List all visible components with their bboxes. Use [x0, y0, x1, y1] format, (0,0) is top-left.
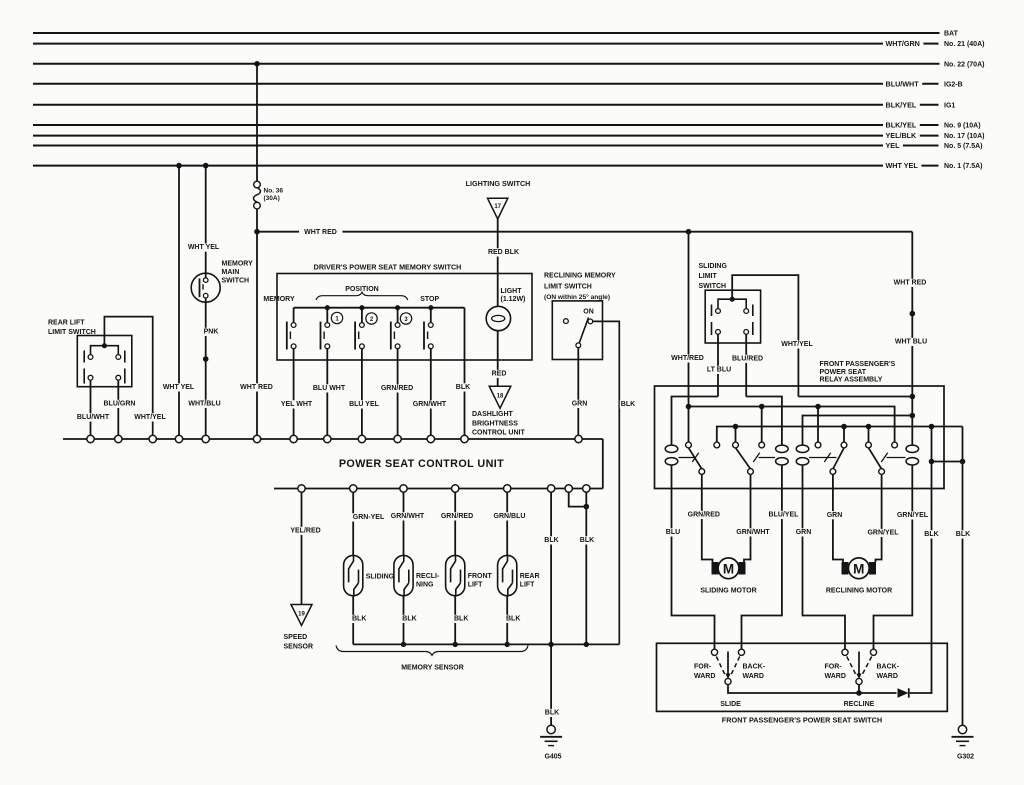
svg-text:BLK/YEL: BLK/YEL — [886, 100, 917, 109]
svg-text:WARD: WARD — [877, 673, 898, 680]
svg-text:FOR-: FOR- — [694, 664, 712, 671]
wire BLK from memory switch bus — [455, 308, 471, 436]
wire BLK from reclining memory limit switch — [593, 321, 637, 644]
svg-text:POWER SEAT CONTROL UNIT: POWER SEAT CONTROL UNIT — [339, 458, 504, 470]
svg-text:BLK: BLK — [621, 401, 635, 408]
wire WHT YEL to control unit — [162, 166, 196, 436]
svg-text:LT BLU: LT BLU — [707, 367, 731, 374]
svg-text:REAR LIFT: REAR LIFT — [48, 320, 85, 327]
svg-text:WHT RED: WHT RED — [894, 280, 927, 287]
svg-text:LIGHTING SWITCH: LIGHTING SWITCH — [466, 179, 531, 188]
svg-text:DRIVER'S POWER SEAT MEMORY SWI: DRIVER'S POWER SEAT MEMORY SWITCH — [314, 263, 462, 272]
svg-text:RED: RED — [492, 371, 507, 378]
svg-text:BRIGHTNESS: BRIGHTNESS — [472, 420, 518, 427]
wire WHT RED horizontal feed — [257, 229, 912, 236]
power rail No. 5 (7.5A) YEL — [33, 141, 983, 150]
wire GRN from relay switch C — [826, 489, 844, 563]
svg-text:BLK: BLK — [580, 537, 594, 544]
svg-text:GRN/WHT: GRN/WHT — [391, 513, 425, 520]
svg-text:BLK: BLK — [506, 616, 520, 623]
ground G302 — [952, 725, 975, 760]
position 3 pushbutton — [391, 308, 400, 360]
memory sensor common BLK bus — [353, 642, 619, 647]
memory switch internal bus — [294, 305, 465, 310]
position 2 pushbutton — [355, 308, 364, 360]
lighting switch connector 17 — [466, 179, 531, 219]
svg-text:RECLINING MOTOR: RECLINING MOTOR — [826, 588, 892, 595]
svg-text:PNK: PNK — [204, 329, 219, 336]
svg-text:WHT YEL: WHT YEL — [163, 384, 195, 391]
svg-text:WHT/YEL: WHT/YEL — [781, 341, 813, 348]
wire GRN-YEL to sliding sensor — [352, 492, 386, 555]
relay switch A (sliding) — [679, 442, 720, 488]
power rail No. 21 (40A) WHT/GRN — [33, 39, 984, 48]
svg-text:SENSOR: SENSOR — [284, 643, 314, 650]
svg-text:BLU/WHT: BLU/WHT — [886, 79, 920, 88]
diode — [898, 688, 909, 698]
svg-text:DASHLIGHT: DASHLIGHT — [472, 411, 514, 418]
svg-text:POWER SEAT: POWER SEAT — [820, 369, 867, 376]
svg-text:RELAY ASSEMBLY: RELAY ASSEMBLY — [820, 377, 883, 384]
power seat control unit lower bus — [274, 488, 603, 490]
circled number 3 — [400, 313, 411, 324]
svg-text:BLU/GRN: BLU/GRN — [104, 401, 136, 408]
front passenger's power seat switch box — [657, 643, 948, 724]
speed sensor connector 19 — [284, 605, 314, 651]
wire BLU/GRN from rear lift limit switch — [103, 380, 137, 435]
svg-text:SWITCH: SWITCH — [699, 283, 727, 290]
front lift sensor — [446, 555, 493, 595]
svg-text:(1.12W): (1.12W) — [501, 296, 526, 303]
wire WHT/RED from feed to relay assembly — [670, 232, 705, 442]
svg-text:BLK: BLK — [352, 616, 366, 623]
svg-text:RECLINE: RECLINE — [844, 701, 875, 708]
svg-text:G405: G405 — [544, 754, 561, 761]
svg-text:MAIN: MAIN — [222, 269, 240, 276]
relay switch D — [866, 442, 906, 488]
wire GRN/WHT from relay switch B — [735, 489, 770, 563]
svg-text:WHT YEL: WHT YEL — [188, 244, 220, 251]
svg-text:No. 1 (7.5A): No. 1 (7.5A) — [944, 163, 983, 170]
wire GRN from relay coil 3 — [795, 489, 845, 650]
wire YEL/RED to speed sensor — [289, 492, 321, 604]
wire BLK below rear lift sensor — [505, 596, 521, 645]
wire BLU/RED from sliding limit switch — [731, 334, 764, 396]
svg-text:G302: G302 — [957, 754, 974, 761]
wire BLK from relay to ground G302 — [955, 462, 971, 726]
svg-text:GRN: GRN — [572, 401, 588, 408]
wire GRN/WHT from STOP pushbutton — [412, 360, 447, 435]
power rail No. 1 (7.5A) WHT YEL — [33, 161, 983, 170]
svg-text:BLK: BLK — [402, 616, 416, 623]
wire GRN/WHT to reclining sensor — [390, 492, 425, 555]
wire WHT RED vertical from fuse to control unit — [239, 209, 274, 435]
svg-text:19: 19 — [298, 612, 305, 618]
recline switch — [825, 649, 900, 708]
power rail BAT — [33, 31, 959, 38]
sliding limit switch — [699, 263, 761, 343]
svg-text:BACK-: BACK- — [743, 664, 766, 671]
wire WHT/YEL from sliding limit switch common to relay assembly — [732, 275, 814, 396]
wire LT BLU from sliding limit switch — [706, 334, 733, 396]
circled number 1 — [331, 312, 342, 323]
svg-text:BACK-: BACK- — [877, 664, 900, 671]
svg-text:BLK: BLK — [956, 531, 970, 538]
wire BLK second from control unit to sensor bus — [579, 492, 595, 644]
svg-text:GRN/WHT: GRN/WHT — [736, 529, 770, 536]
circled number 2 — [366, 313, 377, 324]
svg-text:BLU/WHT: BLU/WHT — [77, 414, 110, 421]
wire BLK jog from control unit — [569, 492, 589, 509]
wire BLK below front lift sensor — [453, 596, 469, 645]
svg-text:BAT: BAT — [944, 31, 959, 38]
svg-text:No. 17 (10A): No. 17 (10A) — [944, 133, 984, 140]
relay internal wire BLK contact feed — [717, 424, 963, 442]
svg-text:LIMIT: LIMIT — [699, 273, 718, 280]
svg-text:SLIDING MOTOR: SLIDING MOTOR — [700, 588, 756, 595]
svg-text:BLU: BLU — [666, 529, 680, 536]
rear lift sensor — [498, 555, 540, 595]
upper bus connectors — [87, 435, 582, 442]
relay coil 3 (reclining forward) — [796, 441, 809, 489]
svg-text:YEL/RED: YEL/RED — [290, 528, 320, 535]
svg-text:17: 17 — [494, 204, 501, 210]
svg-text:SLIDING: SLIDING — [699, 263, 728, 270]
svg-text:BLU/YEL: BLU/YEL — [769, 512, 800, 519]
ground G405 — [540, 725, 562, 760]
svg-text:BLK: BLK — [924, 531, 938, 538]
power rail IG2-B BLU/WHT — [33, 79, 963, 88]
wire BLK below sliding sensor — [351, 596, 367, 645]
svg-text:M: M — [723, 562, 734, 577]
wire BLK from control unit to sensor bus — [543, 492, 559, 644]
svg-text:IG2-B: IG2-B — [944, 81, 963, 88]
wire GRN from reclining memory limit switch — [571, 348, 589, 436]
svg-text:WHT/RED: WHT/RED — [671, 355, 704, 362]
relay switch B — [733, 442, 775, 488]
svg-text:WHT/YEL: WHT/YEL — [134, 414, 166, 421]
svg-text:WHT RED: WHT RED — [240, 384, 273, 391]
STOP pushbutton — [424, 308, 433, 360]
svg-text:GRN/BLU: GRN/BLU — [494, 513, 526, 520]
junction WHT/RED branch to relay assembly — [686, 229, 692, 235]
relay coil 1 (sliding forward) — [665, 441, 678, 489]
power rail No. 22 (70A) — [33, 61, 984, 68]
sliding motor — [700, 558, 756, 595]
svg-text:18: 18 — [497, 394, 504, 400]
svg-text:YEL: YEL — [886, 141, 901, 150]
svg-text:LIGHT: LIGHT — [501, 288, 523, 295]
wire GRN/BLU to rear lift sensor — [493, 492, 527, 555]
svg-text:No. 21 (40A): No. 21 (40A) — [944, 41, 984, 48]
svg-text:GRN/WHT: GRN/WHT — [413, 401, 447, 408]
svg-text:GRN: GRN — [827, 512, 843, 519]
wire BLU from relay coil 1 — [665, 489, 715, 650]
wire BLU/WHT from rear lift limit switch — [76, 380, 110, 435]
svg-text:NING: NING — [416, 581, 434, 588]
memory main switch — [191, 260, 253, 302]
svg-text:(ON within 25° angle): (ON within 25° angle) — [544, 293, 610, 301]
svg-text:BLU WHT: BLU WHT — [313, 385, 346, 392]
svg-text:BLK: BLK — [544, 537, 558, 544]
switch common wire — [728, 685, 933, 696]
svg-text:LIFT: LIFT — [520, 581, 535, 588]
wire BLK from relay to passenger switch — [923, 462, 939, 694]
wire YEL WHT from MEMORY pushbutton — [280, 360, 314, 435]
svg-text:MEMORY: MEMORY — [263, 296, 295, 303]
svg-text:YEL WHT: YEL WHT — [281, 401, 313, 408]
svg-text:GRN: GRN — [796, 529, 812, 536]
svg-text:WHT YEL: WHT YEL — [886, 161, 919, 170]
power seat control unit title — [339, 458, 504, 470]
svg-text:LIMIT SWITCH: LIMIT SWITCH — [544, 283, 592, 290]
wire RED BLK from lighting switch to light — [487, 219, 520, 306]
svg-text:FRONT PASSENGER'S: FRONT PASSENGER'S — [820, 361, 896, 368]
junction on rail No. 22 — [254, 61, 260, 67]
reclining memory limit switch — [544, 273, 616, 360]
position 1 pushbutton — [321, 308, 330, 360]
wire BLK below reclining sensor — [401, 596, 417, 645]
svg-text:WARD: WARD — [825, 673, 846, 680]
svg-text:FRONT PASSENGER'S POWER SEAT S: FRONT PASSENGER'S POWER SEAT SWITCH — [722, 716, 882, 725]
svg-text:FRONT: FRONT — [468, 573, 493, 580]
svg-text:GRN/YEL: GRN/YEL — [867, 530, 899, 537]
svg-text:No. 22 (70A): No. 22 (70A) — [944, 61, 984, 68]
relay switch C (reclining) — [809, 442, 847, 488]
svg-text:SLIDE: SLIDE — [720, 701, 741, 708]
svg-text:GRN/RED: GRN/RED — [688, 512, 720, 519]
power rail IG1 BLK/YEL — [33, 100, 955, 109]
svg-text:BLU YEL: BLU YEL — [349, 401, 380, 408]
rear lift limit switch — [48, 320, 132, 387]
svg-text:WHT/BLU: WHT/BLU — [188, 401, 220, 408]
svg-text:GRN/YEL: GRN/YEL — [897, 512, 929, 519]
svg-text:No. 5 (7.5A): No. 5 (7.5A) — [944, 143, 983, 150]
svg-text:MEMORY SENSOR: MEMORY SENSOR — [401, 665, 464, 672]
svg-text:ON: ON — [583, 309, 594, 316]
relay internal wire WHT/RED contact feed — [686, 404, 895, 442]
reclining sensor — [394, 555, 440, 595]
svg-text:GRN/RED: GRN/RED — [381, 385, 413, 392]
svg-text:BLK: BLK — [454, 616, 468, 623]
power rail No. 9 (10A) BLK/YEL — [33, 121, 981, 130]
svg-text:GRN-YEL: GRN-YEL — [353, 514, 385, 521]
relay BLK link — [929, 427, 966, 465]
svg-text:No. 36: No. 36 — [264, 188, 284, 195]
wire GRN/RED from position 3 — [380, 360, 414, 435]
wire BLU/YEL from relay coil 2 — [742, 489, 800, 650]
svg-text:WHT RED: WHT RED — [304, 229, 337, 236]
svg-text:WARD: WARD — [743, 673, 764, 680]
svg-text:YEL/BLK: YEL/BLK — [886, 131, 918, 140]
junction on rail No. 1 for WHT YEL — [176, 163, 182, 169]
wire GRN/RED from relay switch A — [687, 489, 721, 563]
svg-text:No. 9 (10A): No. 9 (10A) — [944, 123, 981, 130]
svg-text:BLK: BLK — [456, 384, 470, 391]
svg-text:STOP: STOP — [420, 296, 439, 303]
power rail No. 17 (10A) YEL/BLK — [33, 131, 984, 140]
sliding sensor — [344, 555, 395, 595]
svg-text:RECLINING MEMORY: RECLINING MEMORY — [544, 273, 616, 280]
relay internal wire coil3 feed — [803, 413, 916, 441]
svg-text:IG1: IG1 — [944, 102, 955, 109]
wire WHT RED / WHT BLU right vertical — [893, 232, 929, 441]
lower bus connectors — [298, 485, 590, 492]
svg-text:BLK: BLK — [545, 710, 559, 717]
svg-text:SLIDING: SLIDING — [366, 574, 395, 581]
MEMORY pushbutton — [287, 308, 296, 360]
power seat control unit upper bus — [63, 438, 603, 440]
relay internal wire coil feeds — [672, 394, 916, 441]
svg-text:WARD: WARD — [694, 673, 715, 680]
svg-text:M: M — [853, 562, 864, 577]
fuse No. 36 (30A) — [254, 64, 284, 209]
svg-text:SPEED: SPEED — [284, 634, 308, 641]
wire PNK / WHT/BLU from memory main switch to control unit — [187, 298, 221, 435]
svg-text:SWITCH: SWITCH — [222, 277, 250, 284]
power seat control unit right edge — [602, 439, 604, 489]
svg-text:BLK/YEL: BLK/YEL — [886, 121, 917, 130]
svg-text:CONTROL UNIT: CONTROL UNIT — [472, 430, 525, 437]
relay coil 4 (reclining backward) — [906, 441, 919, 489]
wire BLK to ground G405 — [544, 644, 560, 725]
svg-text:RED BLK: RED BLK — [488, 249, 519, 256]
svg-text:REAR: REAR — [520, 573, 540, 580]
wire WHT YEL to memory main switch — [187, 166, 221, 278]
svg-text:WHT/GRN: WHT/GRN — [886, 39, 920, 48]
dashlight brightness control unit connector 18 — [472, 386, 525, 436]
svg-text:WHT BLU: WHT BLU — [895, 339, 927, 346]
reclining motor — [826, 558, 892, 595]
relay coil 2 (sliding backward) — [776, 441, 789, 489]
light 1.12W bulb — [486, 288, 525, 331]
svg-text:GRN/RED: GRN/RED — [441, 513, 473, 520]
svg-text:BLU/RED: BLU/RED — [732, 356, 763, 363]
svg-text:(30A): (30A) — [264, 195, 280, 202]
memory sensor brace — [336, 646, 528, 672]
svg-text:FOR-: FOR- — [825, 664, 843, 671]
wire BLU WHT from position 1 — [312, 360, 346, 435]
slide switch — [694, 649, 766, 708]
wire BLU YEL from position 2 — [348, 360, 380, 435]
front passenger's power seat relay assembly box — [655, 361, 945, 489]
driver's power seat memory switch box — [263, 263, 532, 361]
junction on rail No. 1 for memory main switch — [203, 163, 209, 169]
wire GRN/YEL from relay switch D — [866, 489, 899, 563]
wire RED from light to dashlight unit — [491, 331, 508, 386]
svg-text:LIFT: LIFT — [468, 581, 483, 588]
wire GRN/YEL from relay coil 4 — [874, 489, 930, 650]
wire WHT/YEL from rear lift limit switch common — [104, 317, 166, 436]
svg-text:MEMORY: MEMORY — [222, 260, 254, 267]
wire GRN/RED to front lift sensor — [440, 492, 474, 555]
svg-text:RECLI-: RECLI- — [416, 573, 440, 580]
